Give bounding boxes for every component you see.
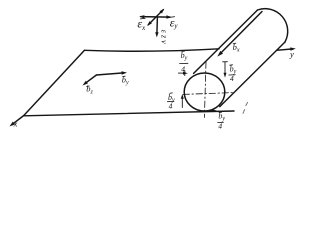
dim arrow left shaft	[181, 98, 183, 108]
vector b_x shaft on cylinder	[221, 12, 262, 54]
dim arrow top-left shaft	[178, 72, 185, 74]
overbar b_z plane	[87, 85, 90, 87]
arrowhead cross right	[166, 15, 171, 18]
svg-text:bz: bz	[86, 84, 93, 96]
vector b_z plane shaft	[85, 75, 97, 84]
svg-text:4: 4	[230, 74, 234, 83]
fraction bar left	[167, 100, 174, 102]
cylinder end circle	[184, 73, 225, 111]
arrowhead b_y plane	[121, 71, 127, 74]
svg-text:4: 4	[181, 65, 185, 74]
centerline vertical dash-dot	[204, 62, 206, 118]
arrowhead dim right	[224, 73, 227, 78]
plane right edge faint stub	[243, 102, 248, 113]
svg-text:bx: bx	[233, 42, 240, 54]
arrowhead b_z plane	[83, 81, 88, 86]
dim arrow bottom shaft	[205, 110, 215, 112]
centerline horizontal dash-dot	[183, 93, 233, 95]
svg-text:4: 4	[218, 121, 222, 130]
overbar eps-x	[140, 17, 145, 20]
arrowhead diag up	[160, 9, 165, 14]
cross horizontal shaft	[141, 16, 170, 19]
overbar b right	[230, 64, 233, 66]
arrowhead diag down	[147, 21, 152, 26]
fraction bar top-left	[180, 62, 189, 64]
svg-text:4: 4	[169, 102, 173, 111]
overbar b top-left	[182, 50, 185, 52]
dim tick right	[223, 61, 228, 63]
overbar eps-y	[169, 16, 174, 19]
cross diagonal shaft	[148, 10, 163, 25]
cylinder lower edge	[220, 42, 285, 107]
svg-text:by: by	[122, 74, 129, 86]
overbar b_y plane	[123, 75, 126, 77]
svg-text:by: by	[181, 51, 188, 62]
arrowhead axis x	[10, 122, 16, 127]
fraction bar right	[229, 74, 235, 76]
axis x	[12, 116, 24, 125]
axis y shaft	[277, 49, 293, 50]
plane bottom edge	[24, 111, 234, 116]
arrowhead dim left	[181, 94, 184, 99]
arrowhead dim bottom	[212, 109, 217, 112]
plane top edge	[85, 49, 220, 51]
svg-text:εzv: εzv	[160, 30, 169, 46]
cylinder end cap arc	[258, 9, 288, 42]
overbar b_x cylinder	[233, 42, 236, 44]
cylinder upper edge	[194, 10, 258, 73]
plane left edge	[24, 50, 85, 115]
arrowhead axis y	[290, 47, 296, 50]
overbar b bottom	[219, 111, 222, 113]
fraction bar bottom	[218, 121, 224, 123]
arrowhead dim top-left	[183, 72, 188, 75]
cross vertical shaft	[156, 17, 159, 34]
arrowhead b_x cylinder	[217, 51, 223, 57]
svg-text:y: y	[289, 49, 294, 59]
arrowhead cross left	[139, 15, 144, 18]
vector b_y plane shaft	[96, 73, 123, 75]
svg-text:x: x	[13, 118, 18, 128]
overbar b left	[170, 92, 173, 94]
arrowhead cross down	[155, 32, 158, 37]
svg-text:εx: εx	[137, 17, 146, 33]
svg-text:εy: εy	[170, 16, 179, 31]
dim tick top-left	[184, 71, 186, 76]
dim arrow right shaft	[224, 62, 226, 74]
